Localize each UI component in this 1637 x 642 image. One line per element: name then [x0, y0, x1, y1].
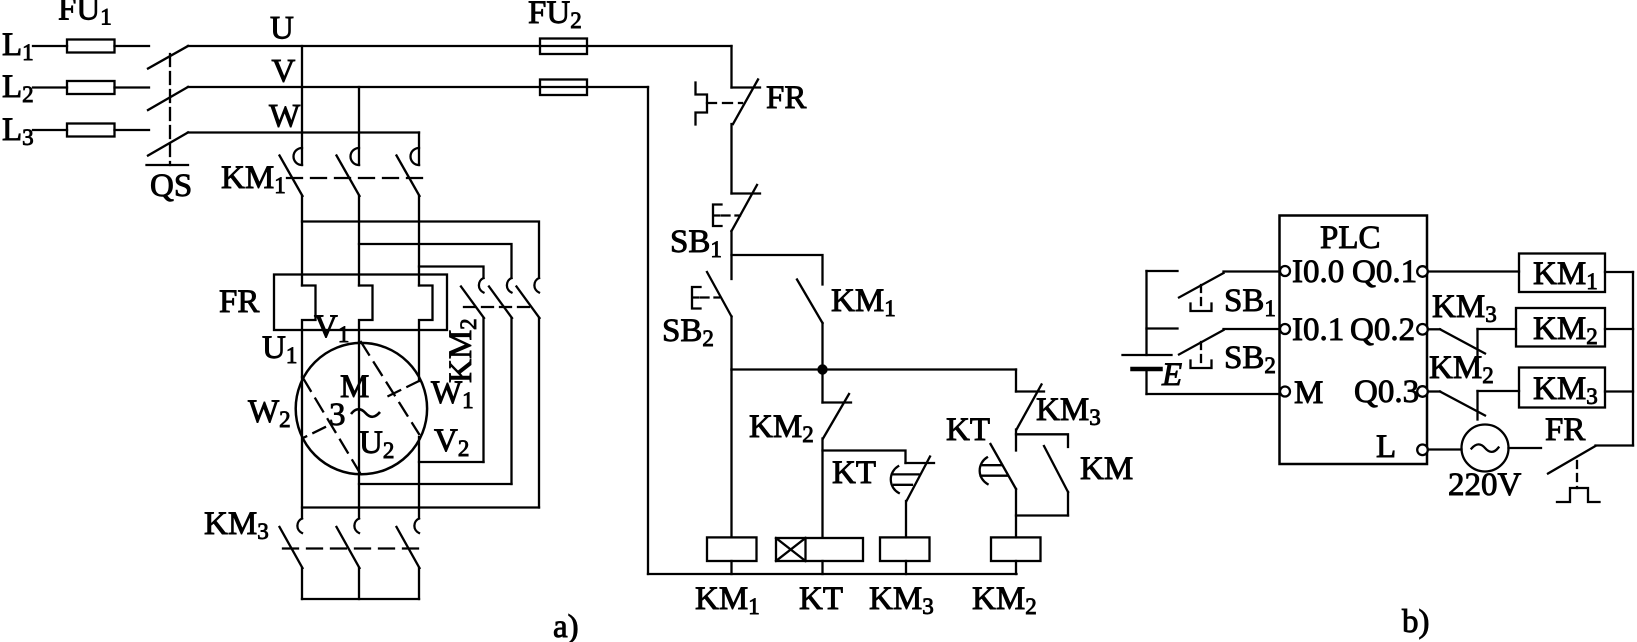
contact KM3 interlock blade	[1440, 329, 1485, 353]
button SB2b link dashed	[1200, 342, 1202, 368]
button SB1b actuator	[1191, 304, 1212, 312]
coil KM2	[991, 537, 1041, 561]
box KM1	[1519, 254, 1605, 293]
fuse FU1 pole2	[67, 81, 115, 94]
svg-text:KT: KT	[946, 412, 990, 448]
wire KM1 box to rail	[1605, 271, 1633, 273]
terminal M circle	[1280, 387, 1290, 397]
switch QS blade3	[148, 133, 188, 156]
wire L to source	[1428, 448, 1462, 450]
contact KM1 aux blade	[797, 280, 823, 324]
contactor KM3 pole2 blade	[337, 527, 360, 568]
button SB2 actuator	[692, 287, 701, 309]
motor M circle	[296, 343, 427, 474]
wire KM3 star bar	[302, 598, 419, 600]
contact KT no blade	[991, 444, 1017, 489]
svg-text:I0.0: I0.0	[1292, 254, 1344, 290]
wire KM3 coil bottom	[905, 561, 907, 574]
wire KT no lower	[1015, 489, 1017, 537]
terminal Q0.2 circle	[1417, 324, 1428, 335]
svg-text:Q0.2: Q0.2	[1350, 312, 1415, 348]
terminal L circle	[1417, 445, 1428, 456]
wire KT coil bottom	[821, 561, 823, 574]
PLC box	[1280, 216, 1428, 465]
contact KM2 nc bar	[823, 401, 852, 403]
wire parallel join bar	[1016, 514, 1068, 516]
contact KT no delay arc	[980, 457, 988, 484]
wire phase W vertical	[418, 133, 420, 166]
contactor KM1 pole3 arc	[411, 148, 420, 165]
wire Q0.1 to KM1 box	[1428, 270, 1519, 272]
wire bus W	[188, 131, 419, 133]
svg-text:V: V	[272, 54, 296, 90]
contactor KM1 pole2 arc	[351, 148, 360, 165]
contact FR blade	[733, 80, 758, 125]
svg-text:M: M	[1294, 375, 1323, 411]
wire bus U	[188, 45, 732, 47]
wire KM2 box to rail	[1605, 328, 1633, 330]
button SB1b blade	[1179, 273, 1224, 298]
wire KM2 pole2 drop	[510, 318, 512, 484]
wire tap U to KM2 pole3	[302, 222, 539, 279]
wire KM2 nc to KT coil	[821, 439, 823, 538]
motor winding V1-V2 dashed	[361, 342, 419, 434]
wire U2 to KM2 pole2	[359, 483, 512, 485]
contact KT nc bar	[906, 462, 935, 464]
contactor KM2 pole2 arc	[507, 278, 512, 293]
contact FR link dashed	[707, 102, 742, 104]
wire KM3 box to rail	[1605, 390, 1633, 392]
contact KM2 interlock bar	[1476, 391, 1478, 420]
wire U below KM1	[301, 196, 303, 286]
svg-text:KM: KM	[1080, 451, 1133, 487]
wire U1 through motor to KM3	[301, 377, 303, 519]
svg-text:a): a)	[553, 609, 579, 642]
wire W below KM1	[418, 196, 420, 286]
wire SB1 to SB2	[730, 231, 732, 279]
motor winding W1-W2 dashed	[384, 381, 419, 398]
svg-text:E: E	[1161, 357, 1182, 393]
svg-text:I0.1: I0.1	[1292, 312, 1344, 348]
wire V below KM1	[358, 196, 360, 286]
wire KM2 coil bottom	[1015, 561, 1017, 574]
terminal Q0.3 circle	[1417, 386, 1428, 397]
contactor KM2 pole1 blade	[461, 287, 484, 319]
contact KM3 nc bar	[1016, 390, 1044, 392]
button SB2b actuator	[1191, 361, 1212, 369]
svg-text:QS: QS	[150, 168, 192, 204]
wire KT contact to KM3 coil	[905, 501, 907, 537]
label motor tilde	[351, 409, 380, 417]
wire control left rail	[647, 87, 649, 574]
wire SB1b to I0.0	[1224, 270, 1281, 272]
contactor KM1 pole3 blade	[397, 156, 420, 197]
contactor KM2 pole2 blade	[489, 287, 512, 319]
contact FRb blade	[1548, 446, 1596, 474]
wire L3 in	[33, 129, 67, 131]
source 220V circle	[1462, 425, 1509, 472]
contactor KM1 pole1 blade	[280, 156, 303, 197]
terminal I0.1 circle	[1280, 324, 1290, 334]
contact KM2 interlock blade	[1440, 392, 1485, 416]
contactor KM1 linkage dashed	[287, 177, 428, 179]
button SB1b link dashed	[1200, 285, 1202, 311]
contact FRb link dashed	[1576, 461, 1578, 488]
contact FR thermal symbol	[696, 83, 708, 125]
switch QS linkage dashed	[169, 54, 171, 165]
wire L1 to QS	[115, 45, 150, 47]
svg-text:L: L	[1376, 429, 1396, 465]
button SB2 blade	[707, 272, 732, 317]
contact KT no delay chord2	[981, 475, 1007, 477]
wire left rail upper	[1145, 271, 1147, 355]
contactor KM3 pole3 blade	[397, 527, 420, 568]
contact KT nc delay chord2	[894, 484, 912, 486]
wire control main drop	[730, 46, 732, 88]
wire KM2 pole3 drop	[538, 318, 540, 508]
wire L1 in	[33, 45, 67, 47]
wire right rung drop	[1015, 370, 1017, 392]
wire KM3 pole3 lower	[418, 568, 420, 599]
contact KM2 interlock stub	[1428, 390, 1440, 392]
contactor KM2 pole1 arc	[479, 278, 484, 293]
battery E long plate	[1123, 354, 1172, 356]
wire KM3 pole2 lower	[358, 568, 360, 599]
wire KM1 aux lower	[821, 323, 823, 370]
wire tap W to KM2 pole1	[419, 267, 484, 279]
svg-text:PLC: PLC	[1320, 220, 1381, 256]
wire source to FR	[1509, 447, 1542, 449]
wire V2 below motor	[418, 437, 420, 519]
wire parallel split bar	[1016, 434, 1068, 447]
contactor KM2 pole3 arc	[534, 278, 539, 293]
contact KM3 interlock stub	[1428, 328, 1440, 330]
wire rail to M terminal	[1147, 393, 1281, 395]
switch QS blade1	[148, 46, 188, 69]
svg-text:Q0.3: Q0.3	[1354, 374, 1419, 410]
svg-text:FR: FR	[219, 284, 259, 320]
contact KM2 nc drop	[821, 370, 823, 403]
button SB1 link dashed	[722, 214, 741, 216]
wire KM2 pole1 drop	[482, 318, 484, 462]
coil KM3	[880, 537, 930, 561]
wire FRb to rail	[1596, 444, 1634, 446]
terminal I0.0 circle	[1280, 266, 1290, 276]
wire SB2b rail stub	[1147, 327, 1178, 329]
contactor KM1 pole1 arc	[294, 148, 303, 165]
fuse FU2 pole2	[540, 80, 587, 96]
terminal Q0.1 circle	[1417, 266, 1428, 277]
junction dot	[817, 364, 827, 374]
wire L3 to QS	[115, 129, 150, 131]
wire L2 in	[33, 86, 67, 88]
svg-text:b): b)	[1402, 604, 1430, 640]
wire junction bus	[732, 368, 1017, 370]
svg-text:KT: KT	[799, 581, 843, 617]
wire KM1 coil drop	[730, 370, 732, 538]
wire V2 to KM2 pole1	[419, 461, 484, 463]
switch QS blade2	[148, 87, 188, 110]
wire SB1b rail stub	[1147, 270, 1178, 272]
contactor KM1 pole2 blade	[337, 156, 360, 197]
contactor KM2 pole3 blade	[517, 287, 540, 319]
button SB2 link dashed	[701, 296, 720, 298]
wire W2 to KM2 pole3	[302, 506, 539, 508]
wire bus V	[188, 86, 648, 88]
fuse FU2 pole1	[540, 39, 587, 55]
box KM2	[1516, 308, 1605, 347]
contactor KM3 pole1 arc	[297, 519, 302, 534]
coil KT divider	[804, 538, 806, 561]
wire SB2 to junction	[730, 317, 732, 370]
coil KT outer	[776, 538, 863, 561]
relay FR heater box	[274, 275, 447, 331]
contact KT nc delay arc	[891, 466, 899, 493]
coil KM1	[707, 537, 757, 561]
contactor KM3 linkage dashed	[283, 547, 424, 549]
contact FR bar	[732, 86, 761, 88]
button SB2b blade	[1179, 330, 1224, 355]
wire KM1 coil bottom	[730, 561, 732, 574]
wire KM1 aux branch top	[732, 255, 823, 285]
contactor KM3 pole1 blade	[280, 527, 303, 568]
wire SB2b to I0.1	[1224, 328, 1281, 330]
contact KM3 interlock bar	[1476, 329, 1478, 357]
contact FRb trip symbol	[1557, 488, 1600, 502]
wire L2 to QS	[115, 86, 150, 88]
wire phase V vertical	[358, 87, 360, 165]
relay FR heater3	[419, 286, 433, 382]
wire FR to SB1	[730, 124, 732, 194]
button SB1 bar	[732, 192, 761, 194]
wire V1 through motor to KM3	[358, 342, 360, 519]
wire branch to KT contact	[823, 451, 906, 464]
wire left rail lower	[1145, 369, 1147, 394]
box KM3	[1519, 368, 1605, 408]
wire KM3 nc lower	[1015, 430, 1017, 451]
svg-text:KT: KT	[832, 455, 876, 491]
svg-text:FU1: FU1	[58, 0, 112, 30]
contact KM3 nc blade	[1017, 385, 1042, 430]
svg-text:3: 3	[329, 397, 346, 433]
svg-text:220V: 220V	[1448, 467, 1522, 503]
wire to KM2 box	[1478, 328, 1517, 330]
contact KM no blade	[1044, 446, 1068, 492]
wire control bottom bus	[648, 573, 1017, 575]
button SB1 actuator	[713, 205, 722, 227]
contactor KM3 pole3 arc	[414, 519, 419, 534]
contact KT nc blade	[907, 457, 931, 502]
svg-text:U: U	[270, 11, 294, 47]
contactor KM3 pole2 arc	[354, 519, 359, 534]
contact KM2 nc blade	[823, 394, 849, 439]
wire phase U vertical	[301, 46, 303, 165]
wire KM no lower	[1067, 492, 1069, 516]
contact KT nc delay chord1	[892, 473, 919, 475]
svg-text:W: W	[269, 99, 301, 135]
wire right rail	[1632, 272, 1634, 446]
coil KT cross	[776, 538, 806, 561]
relay FR heater2	[359, 286, 373, 343]
wire to KM3 box	[1478, 390, 1520, 392]
fuse FU1 pole3	[67, 124, 115, 137]
wire tap V to KM2 pole2	[359, 244, 512, 278]
fuse FU1 pole1	[67, 40, 115, 53]
contactor KM2 linkage dashed	[464, 306, 530, 308]
relay FR heater1	[302, 286, 316, 378]
wire KM3 pole1 lower	[301, 568, 303, 599]
svg-text:Q0.1: Q0.1	[1352, 254, 1417, 290]
contact KT no delay chord1	[983, 464, 1002, 466]
motor winding U1-U2 dashed	[303, 378, 360, 473]
switch QS bar	[147, 164, 189, 166]
svg-text:FR: FR	[1545, 412, 1585, 448]
svg-text:FR: FR	[766, 80, 806, 116]
source sine symbol	[1472, 444, 1499, 452]
button SB1 blade	[732, 185, 758, 231]
battery E short plate	[1133, 367, 1161, 372]
